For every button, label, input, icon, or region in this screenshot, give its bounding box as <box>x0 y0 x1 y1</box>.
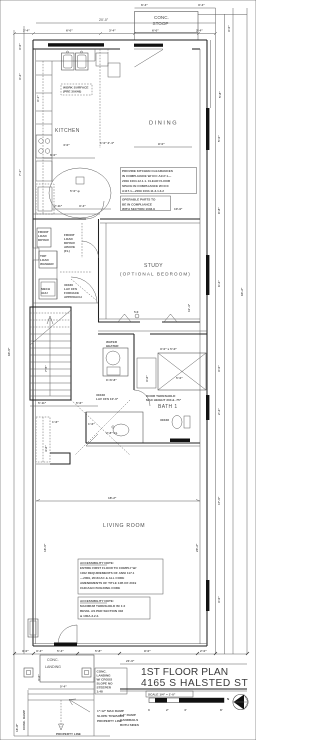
hall door arc2 <box>71 277 97 303</box>
svg-text:8': 8' <box>220 708 223 712</box>
svg-text:6'-0": 6'-0" <box>152 29 159 33</box>
svg-text:DINING: DINING <box>149 121 178 127</box>
landing post right <box>82 668 91 677</box>
shower <box>158 353 206 390</box>
svg-text:& 100A.3.2.2.: & 100A.3.2.2. <box>80 614 99 618</box>
accessibility note 1 <box>78 559 163 594</box>
window right dining <box>206 108 209 150</box>
svg-text:(PRE 30X48): (PRE 30X48) <box>63 90 81 94</box>
svg-text:9'-8": 9'-8" <box>217 207 221 214</box>
landing note <box>95 668 127 694</box>
bath inner wall <box>133 334 135 390</box>
svg-text:N: N <box>227 697 230 701</box>
svg-text:AMENDMENTS OF TITLE 14B OF 201: AMENDMENTS OF TITLE 14B OF 2019 <box>80 581 136 585</box>
bottom wall outer <box>33 645 207 647</box>
svg-text:5'-0" φ: 5'-0" φ <box>70 189 81 193</box>
dim col right 3 <box>232 8 234 654</box>
svg-text:3'-4": 3'-4" <box>198 3 205 7</box>
rear door arc <box>58 625 77 644</box>
window right bath <box>206 395 209 420</box>
kitchen clearance circle <box>49 168 111 218</box>
laundry wall <box>56 251 58 299</box>
svg-text:3'-0": 3'-0" <box>227 25 231 32</box>
hall door arc <box>86 201 104 219</box>
conc landing box <box>40 655 94 682</box>
ramp top double <box>28 693 94 695</box>
svg-text:3'-6": 3'-6" <box>145 375 149 382</box>
svg-text:4': 4' <box>184 708 187 712</box>
svg-text:3'-4": 3'-4" <box>36 649 43 653</box>
svg-text:11'-4": 11'-4" <box>187 303 191 312</box>
toilet <box>184 416 190 428</box>
dim line row2 <box>14 33 216 35</box>
dining bottom wall <box>100 218 200 220</box>
bottom dim row1 <box>14 653 247 655</box>
svg-text:AHU: AHU <box>41 291 48 295</box>
hall dashed line2 <box>60 271 92 273</box>
ramp center line <box>60 700 62 727</box>
operable parts note <box>121 196 171 211</box>
property line left <box>13 30 15 736</box>
svg-text:—2009, 2018 IAC & ALL CODE: —2009, 2018 IAC & ALL CODE <box>80 576 124 580</box>
top wall inner <box>33 48 120 50</box>
water heater <box>103 348 128 376</box>
svg-text:LANDING: LANDING <box>45 665 61 669</box>
kitchen window bar <box>48 43 104 46</box>
svg-text:ACCESSIBILITY NOTE:: ACCESSIBILITY NOTE: <box>80 599 114 603</box>
svg-text:5'-0": 5'-0" <box>217 135 221 142</box>
svg-text:2'-4": 2'-4" <box>217 408 221 415</box>
svg-text:3'-4": 3'-4" <box>18 73 22 80</box>
svg-text:9'-0": 9'-0" <box>158 142 165 146</box>
kitchen counter top <box>36 60 95 62</box>
svg-text:BATH 1: BATH 1 <box>158 404 178 410</box>
svg-text:ENTIRE FIRST FLOOR TO COMPLY W: ENTIRE FIRST FLOOR TO COMPLY W/ <box>80 566 136 570</box>
hall door leaf <box>86 434 98 446</box>
property line bottom <box>14 735 110 737</box>
svg-text:1ST FLOOR PLAN: 1ST FLOOR PLAN <box>141 667 228 678</box>
fridge dashed <box>36 184 54 214</box>
mech box <box>39 279 57 299</box>
svg-text:0: 0 <box>148 708 150 712</box>
hall wall below kitchen <box>33 213 100 215</box>
svg-text:16'-8": 16'-8" <box>15 723 19 732</box>
svg-text:MAX HEIGHT 303 & .75": MAX HEIGHT 303 & .75" <box>146 398 182 402</box>
svg-text:ACCESSIBILITY NOTE:: ACCESSIBILITY NOTE: <box>80 561 114 565</box>
stair treads dashed <box>30 312 71 314</box>
hall diagonals <box>71 400 130 455</box>
kitchen counter left dashed <box>42 61 44 214</box>
svg-text:LIVING ROOM: LIVING ROOM <box>103 523 145 529</box>
svg-text:CONC. RAMP: CONC. RAMP <box>22 710 26 730</box>
top wall outer <box>33 39 207 41</box>
closet dashed <box>36 417 50 462</box>
bath bottom wall <box>86 442 200 444</box>
svg-text:PROVIDE KITCHEN CLEARANCES: PROVIDE KITCHEN CLEARANCES <box>122 169 173 173</box>
svg-text:10'-9": 10'-9" <box>174 207 183 211</box>
ticks bottom <box>13 652 249 655</box>
svg-text:5'-0": 5'-0" <box>176 376 183 380</box>
window right living <box>206 580 209 611</box>
svg-text:SPACE IN COMPLIANCE W/ ICC: SPACE IN COMPLIANCE W/ ICC <box>122 184 170 188</box>
kitchen counter left edge <box>51 61 53 135</box>
svg-text:7'-5": 7'-5" <box>44 365 48 372</box>
svg-text:5'-4": 5'-4" <box>57 649 64 653</box>
svg-text:A117.1—2009 1004.11.3.1.3.2: A117.1—2009 1004.11.3.1.3.2 <box>122 189 164 193</box>
study door marks <box>118 314 131 322</box>
peninsula cabinet <box>96 53 108 66</box>
svg-text:6'-0": 6'-0" <box>50 153 57 157</box>
work surface note <box>61 84 92 95</box>
svg-text:6'-4": 6'-4" <box>141 3 148 7</box>
closet jut wall <box>50 453 70 464</box>
svg-text:6'-4": 6'-4" <box>217 280 221 287</box>
svg-text:7'-1": 7'-1" <box>18 169 22 176</box>
svg-text:C=6'-8": C=6'-8" <box>106 378 117 382</box>
svg-text:OPERABLE PARTS TO: OPERABLE PARTS TO <box>122 198 156 202</box>
stair enclosure <box>30 307 71 400</box>
window right study <box>206 255 209 295</box>
bath door arc <box>134 390 150 406</box>
ramp left edge <box>27 690 29 736</box>
hall upper wall <box>98 330 207 332</box>
svg-text:3'-0": 3'-0" <box>18 43 22 50</box>
svg-text:CHICAGO BUILDING CODE: CHICAGO BUILDING CODE <box>80 586 120 590</box>
svg-text:5'-8": 5'-8" <box>218 91 222 98</box>
svg-text:1'-0" 2'-4": 1'-0" 2'-4" <box>100 141 115 145</box>
svg-text:SCALE 1/4" = 1'-0": SCALE 1/4" = 1'-0" <box>148 693 176 697</box>
svg-text:9'-0": 9'-0" <box>144 649 151 653</box>
svg-text:1002 REQUIREMENTS OF ANSI 117.: 1002 REQUIREMENTS OF ANSI 117.1 <box>80 571 135 575</box>
svg-text:(FL): (FL) <box>64 249 70 253</box>
stoop right dim line <box>198 14 247 16</box>
svg-text:KITCHEN: KITCHEN <box>55 128 80 134</box>
landing dim line <box>28 688 94 690</box>
right wall outer <box>206 40 208 646</box>
kitchen dim line bottom <box>52 208 111 210</box>
svg-text:6'-0": 6'-0" <box>66 29 73 33</box>
svg-text:63'-0": 63'-0" <box>7 347 11 356</box>
hall dashed jamb <box>81 223 83 258</box>
svg-text:3'-0": 3'-0" <box>22 649 29 653</box>
svg-text:3'-0" x 5'-0": 3'-0" x 5'-0" <box>160 347 177 351</box>
kitchen wall divider <box>99 49 101 148</box>
stair treads <box>30 333 71 335</box>
svg-text:PROPERTY LINE: PROPERTY LINE <box>56 732 81 736</box>
svg-text:3'-0": 3'-0" <box>217 596 221 603</box>
kitchen sink <box>62 53 75 70</box>
dim col right 1 <box>215 8 217 654</box>
study left wall <box>98 219 100 322</box>
stair bottom dims <box>30 405 98 407</box>
svg-text:PROPERTY LINE: PROPERTY LINE <box>97 719 122 723</box>
living dim line <box>36 500 200 502</box>
svg-text:BEVEL AS PER SECTION 303: BEVEL AS PER SECTION 303 <box>80 609 123 613</box>
small appliance icon <box>76 177 84 184</box>
svg-text:IN COMPLIANCE W/ ICC A117.1—: IN COMPLIANCE W/ ICC A117.1— <box>122 174 172 178</box>
svg-text:1'-6": 1'-6" <box>52 420 59 424</box>
veneer jog line <box>210 40 212 108</box>
electrical panel <box>28 619 38 637</box>
linen closet <box>137 358 156 388</box>
stoop side stubs <box>134 33 136 41</box>
front door threshold bar <box>134 44 163 47</box>
dim line 20ft <box>36 22 216 24</box>
svg-text:1.4″ RAMP: 1.4″ RAMP <box>120 713 136 717</box>
bottom dim row2 <box>120 663 247 665</box>
ramp arrows <box>69 699 90 712</box>
north arrow <box>233 694 248 709</box>
svg-text:2'-4": 2'-4" <box>23 29 30 33</box>
svg-text:LAV CFS 10'-0": LAV CFS 10'-0" <box>96 397 119 401</box>
svg-text:20'-0": 20'-0" <box>99 18 109 22</box>
title underline <box>120 688 247 690</box>
dim line col left <box>23 26 25 654</box>
svg-text:5'-6": 5'-6" <box>76 401 83 405</box>
svg-text:2'-4": 2'-4" <box>196 29 203 33</box>
stoop top dim line <box>135 7 216 9</box>
svg-text:2009 1004.12.1.1. CLEAR FLOOR: 2009 1004.12.1.1. CLEAR FLOOR <box>122 179 171 183</box>
svg-text:4'-0": 4'-0" <box>63 143 70 147</box>
tick marks top <box>13 32 217 35</box>
svg-text:63'-2": 63'-2" <box>240 287 244 296</box>
hall door arc1 <box>82 241 99 258</box>
svg-text:16'-0": 16'-0" <box>43 543 47 552</box>
landing post left <box>24 668 33 677</box>
scale box <box>146 691 193 697</box>
dim col right 4 <box>246 8 248 654</box>
bath left wall <box>85 412 87 443</box>
front door swing <box>135 50 164 68</box>
svg-text:2'-11": 2'-11" <box>54 204 63 208</box>
bottom wall inner <box>33 643 207 645</box>
svg-text:21'-0": 21'-0" <box>126 659 135 663</box>
svg-text:4'-6": 4'-6" <box>44 445 48 452</box>
svg-text:CONC.: CONC. <box>154 15 169 20</box>
svg-text:BOTH SIDES: BOTH SIDES <box>120 723 139 727</box>
svg-text:STOOP: STOOP <box>153 21 169 26</box>
left wall outer <box>32 40 34 646</box>
svg-text:HEATER: HEATER <box>106 344 119 348</box>
study bottom wall <box>98 318 200 320</box>
hall diag dashed <box>71 279 96 300</box>
bath south dark bar <box>170 439 190 443</box>
svg-text:18'-2": 18'-2" <box>108 496 117 500</box>
right wall inner <box>199 49 201 644</box>
vanity <box>86 412 143 443</box>
dryer box <box>37 228 51 247</box>
left wall inner <box>35 49 37 644</box>
conc stoop box <box>135 12 199 33</box>
dim col right 2 <box>224 14 226 654</box>
svg-text:2': 2' <box>166 708 169 712</box>
washer box <box>39 251 57 268</box>
svg-text:2'-0": 2'-0" <box>200 649 207 653</box>
svg-text:CONC.: CONC. <box>47 658 59 662</box>
svg-text:17'-0": 17'-0" <box>217 496 221 505</box>
svg-text:5'-11": 5'-11" <box>38 401 47 405</box>
svg-text:MAXIMUM THRESHOLD W/ 1:2: MAXIMUM THRESHOLD W/ 1:2 <box>80 604 125 608</box>
stair diagonal <box>30 310 71 345</box>
svg-text:(OPTIONAL BEDROOM): (OPTIONAL BEDROOM) <box>120 272 191 277</box>
svg-text:BE IN COMPLIANCE: BE IN COMPLIANCE <box>122 203 152 207</box>
kitchen 6-0 dim <box>43 157 95 159</box>
svg-text:5'-8": 5'-8" <box>95 649 102 653</box>
wall box laundry <box>33 248 39 260</box>
svg-text:STUDY: STUDY <box>144 263 163 269</box>
svg-text:1:48: 1:48 <box>97 690 103 694</box>
svg-text:3'-4": 3'-4" <box>79 204 86 208</box>
svg-text:APPROACH: APPROACH <box>64 295 82 299</box>
svg-text:HANDRAILS: HANDRAILS <box>120 718 138 722</box>
svg-text:1'-6": 1'-6" <box>88 422 95 426</box>
svg-text:WITH SECTION 1003.9: WITH SECTION 1003.9 <box>122 207 155 211</box>
ramp right edge <box>93 677 95 736</box>
scale bar <box>149 698 224 703</box>
svg-text:3'-1": 3'-1" <box>36 95 40 102</box>
dishwasher <box>36 161 52 181</box>
svg-text:DRYER: DRYER <box>38 238 49 242</box>
svg-text:3'-0": 3'-0" <box>37 674 41 681</box>
kitchen clearances note <box>121 168 197 194</box>
stair up arrow <box>49 318 51 396</box>
svg-text:5'-4": 5'-4" <box>60 685 67 689</box>
cabinet dividers <box>36 74 52 76</box>
accessibility note 2 <box>78 597 150 619</box>
svg-text:3'-0": 3'-0" <box>217 365 221 372</box>
svg-text:30X48: 30X48 <box>160 418 169 422</box>
svg-text:3'-4": 3'-4" <box>109 29 116 33</box>
svg-text:5.0: 5.0 <box>134 310 139 314</box>
svg-text:20'-2": 20'-2" <box>195 543 199 552</box>
svg-text:WASHER: WASHER <box>40 262 54 266</box>
bottom threshold bar <box>54 643 77 647</box>
stove <box>36 135 52 158</box>
svg-text:4165 S HALSTED ST: 4165 S HALSTED ST <box>141 678 248 689</box>
